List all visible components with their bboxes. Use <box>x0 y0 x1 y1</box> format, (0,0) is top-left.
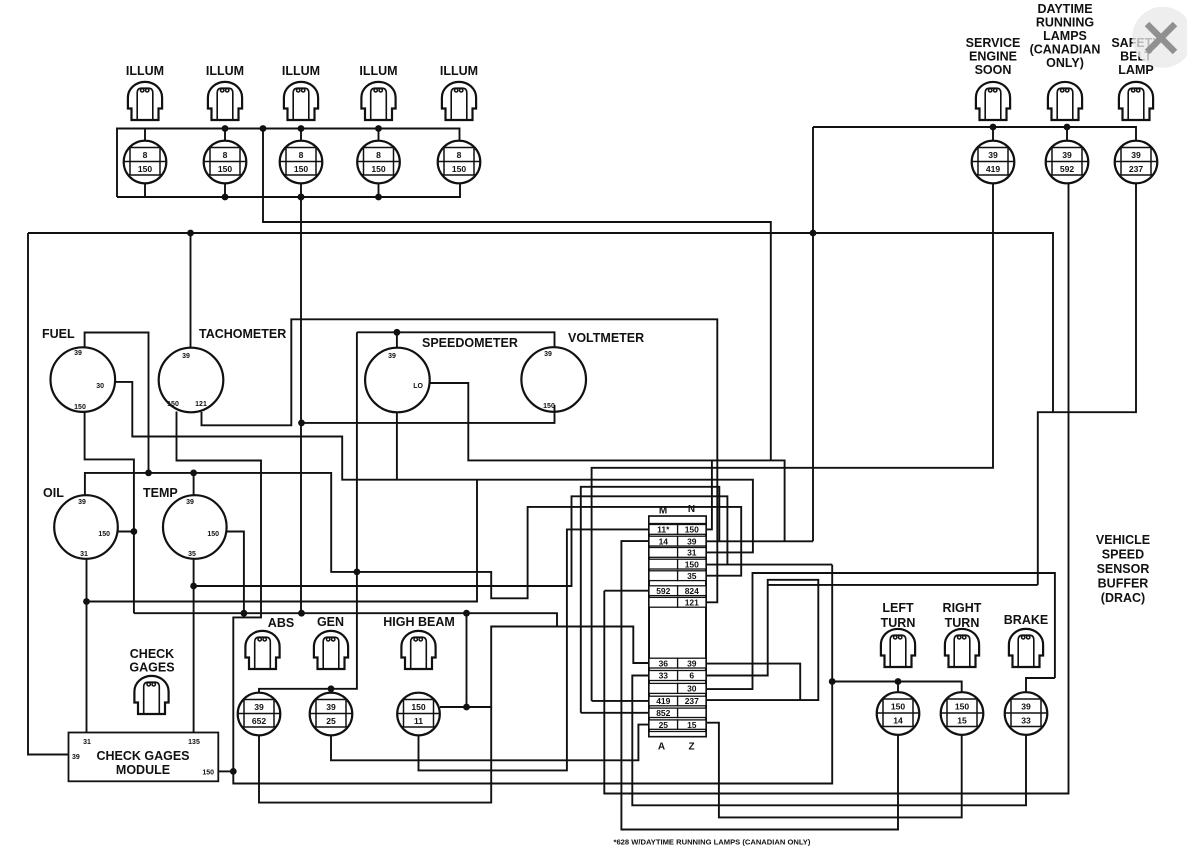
junction dot 39drop <box>354 569 361 576</box>
svg-text:36: 36 <box>659 658 669 668</box>
connector BRAKE (39/33) <box>1005 692 1048 735</box>
wire N237 exit <box>706 580 818 700</box>
wire SAFETY 237 drop <box>1038 183 1136 585</box>
svg-text:BRAKE: BRAKE <box>1004 613 1048 627</box>
junction dot bottom bus <box>298 194 305 201</box>
svg-text:31: 31 <box>80 551 88 558</box>
svg-text:ABS: ABS <box>268 616 294 630</box>
wire stub DRL top <box>1066 127 1068 141</box>
junction dot x813 y233 <box>810 230 817 237</box>
connector LEFT TURN (150/14) <box>877 692 920 735</box>
svg-text:150: 150 <box>955 702 970 712</box>
wire M852 stub <box>581 712 649 714</box>
svg-text:SPEEDOMETER: SPEEDOMETER <box>422 336 518 350</box>
svg-text:MODULE: MODULE <box>116 763 170 777</box>
gauge OIL <box>54 495 118 559</box>
lamp DAYTIME RUNNING LAMPS bulb <box>1048 82 1082 120</box>
svg-text:35: 35 <box>687 571 697 581</box>
connector C3 ILLUM (8/150) <box>280 141 323 184</box>
wire FUEL.39 riser <box>85 333 149 473</box>
svg-text:150: 150 <box>167 401 179 408</box>
svg-text:25: 25 <box>326 716 336 726</box>
svg-text:150: 150 <box>685 559 699 569</box>
connector HIGH BEAM (150/11) <box>397 693 440 736</box>
wire GEN top stub <box>330 689 332 693</box>
lamp ILLUM 5 bulb <box>442 82 476 120</box>
svg-text:592: 592 <box>1060 164 1075 174</box>
wire stub lamp feed <box>224 129 226 142</box>
junction dot temp39-bus <box>190 470 197 477</box>
junction dot drl top <box>1064 124 1071 131</box>
svg-text:SERVICE: SERVICE <box>966 36 1021 50</box>
svg-text:150: 150 <box>98 531 110 538</box>
wire OIL.31 branch <box>87 480 478 602</box>
wire M592 stub <box>604 590 649 592</box>
svg-text:121: 121 <box>195 401 207 408</box>
pin label SPEEDO 39 <box>388 353 396 360</box>
label VEHICLE SPEED SENSOR BUFFER (DRAC) <box>1096 533 1150 605</box>
junction dot x301 y197 <box>298 194 305 201</box>
junction dot speedo-top <box>394 329 401 336</box>
wire right lamp top bus y127 <box>813 127 1136 141</box>
svg-text:11*: 11* <box>657 525 670 535</box>
wire TEMP.35 drop to module <box>193 559 195 733</box>
svg-text:39: 39 <box>988 150 998 160</box>
lamp ILLUM 1 bulb <box>128 82 162 120</box>
gauge VOLTMETER <box>521 347 586 412</box>
svg-text:30: 30 <box>687 684 697 694</box>
wire stub lamp feed <box>144 129 146 142</box>
wire N39row8 exit <box>706 664 800 701</box>
connector block C100 (M/N, A/Z) <box>649 516 706 736</box>
svg-text:39: 39 <box>326 702 336 712</box>
pin label FUEL 39 <box>74 350 82 357</box>
junction dot fuel39-bus <box>145 470 152 477</box>
svg-text:237: 237 <box>1129 164 1144 174</box>
lamp ILLUM 4 bulb <box>361 82 395 120</box>
svg-text:ILLUM: ILLUM <box>126 64 164 78</box>
wire net-8 drop and run y222 <box>263 129 771 461</box>
svg-text:30: 30 <box>96 383 104 390</box>
connector C2 ILLUM (8/150) <box>204 141 247 184</box>
label SPEEDOMETER <box>422 336 518 350</box>
svg-text:(CANADIAN: (CANADIAN <box>1030 43 1101 57</box>
label ABS <box>268 616 294 630</box>
svg-text:39: 39 <box>186 499 194 506</box>
wire 150 drop from y613 <box>466 613 468 707</box>
wire ILLUM bottom bus <box>117 184 460 198</box>
junction dot service top <box>990 124 997 131</box>
wire ABS.652 run <box>259 707 491 803</box>
lamp ABS bulb <box>245 631 279 669</box>
label LEFT TURN <box>881 601 916 630</box>
svg-text:TEMP: TEMP <box>143 486 178 500</box>
connector SERVICE (39/419) <box>972 141 1015 184</box>
wire net150 run y613 <box>134 613 557 626</box>
svg-text:419: 419 <box>986 164 1001 174</box>
block footer Z <box>688 742 694 753</box>
svg-text:39: 39 <box>72 754 80 761</box>
svg-text:8: 8 <box>376 150 381 160</box>
svg-text:ILLUM: ILLUM <box>440 64 478 78</box>
wire 39-net left border drop to module <box>28 233 69 755</box>
svg-text:39: 39 <box>74 350 82 357</box>
lamp ILLUM 3 label <box>282 64 320 78</box>
wire DRL 592 drop <box>604 183 1068 793</box>
svg-text:39: 39 <box>78 499 86 506</box>
svg-text:N: N <box>688 504 695 515</box>
svg-text:(DRAC): (DRAC) <box>1101 591 1145 605</box>
wire ILLUM top bus <box>117 129 460 198</box>
wire TEMP.39 stub <box>193 473 195 495</box>
footnote *628 note <box>614 838 811 847</box>
label GEN <box>317 615 344 629</box>
wire net-150 long drop x301 <box>300 197 302 613</box>
module pin 31 <box>83 739 91 746</box>
wire OIL.31 drop to module <box>86 559 88 733</box>
svg-text:150: 150 <box>207 531 219 538</box>
connector SAFETY BELT (39/237) <box>1115 141 1158 184</box>
wire M33 to BRAKE 33 <box>632 676 1026 806</box>
svg-text:135: 135 <box>188 739 200 746</box>
lamp BRAKE bulb <box>1009 629 1043 667</box>
junction dot module150 <box>230 768 237 775</box>
pin label OIL 150 <box>98 531 110 538</box>
svg-text:121: 121 <box>685 598 699 608</box>
pin label TEMP 35 <box>188 551 196 558</box>
svg-text:ILLUM: ILLUM <box>359 64 397 78</box>
junction dot x301 y613 <box>298 610 305 617</box>
svg-text:39: 39 <box>182 353 190 360</box>
svg-text:VEHICLE: VEHICLE <box>1096 533 1150 547</box>
wire SPEEDO bottom drop <box>396 412 398 479</box>
svg-text:8: 8 <box>143 150 148 160</box>
pin label TACH 150 <box>167 401 179 408</box>
label FUEL <box>42 327 75 341</box>
junction dot top bus x263 <box>260 125 267 132</box>
junction dot top bus <box>298 125 305 132</box>
module pin 39 <box>72 754 80 761</box>
svg-text:39: 39 <box>1131 150 1141 160</box>
block header N <box>688 504 695 515</box>
svg-text:M: M <box>659 506 667 517</box>
wire 39-net feed y233 <box>28 233 1053 412</box>
lamp ILLUM 4 label <box>359 64 397 78</box>
wire 39 bus over OIL/TEMP <box>85 473 741 598</box>
pin label TEMP 39 <box>186 499 194 506</box>
wire TACH.39 riser <box>190 233 192 348</box>
svg-text:ONLY): ONLY) <box>1046 56 1084 70</box>
svg-text:150: 150 <box>294 164 309 174</box>
junction dot bottom bus <box>375 194 382 201</box>
svg-text:35: 35 <box>188 551 196 558</box>
label SERVICE ENGINE SOON <box>966 36 1021 77</box>
svg-text:31: 31 <box>687 548 697 558</box>
wire SERVICE 419 drop <box>592 183 993 701</box>
wire stub lamp return <box>300 184 302 198</box>
label CHECK GAGES <box>129 647 174 675</box>
svg-text:11: 11 <box>414 716 423 726</box>
svg-text:ENGINE: ENGINE <box>969 50 1017 64</box>
svg-text:39: 39 <box>687 536 697 546</box>
wire TEMP.35 branch y586 <box>194 496 728 586</box>
wire FUEL.150 drop <box>85 412 134 614</box>
lamp ILLUM 5 label <box>440 64 478 78</box>
connector C4 ILLUM (8/150) <box>357 141 400 184</box>
wire N150 hook from LO line <box>706 460 712 529</box>
svg-text:150: 150 <box>411 702 426 712</box>
svg-text:33: 33 <box>659 671 669 681</box>
wire N39row2 line <box>706 540 813 542</box>
label DAYTIME RUNNING LAMPS (CANADIAN ONLY) <box>1030 2 1101 70</box>
svg-text:FUEL: FUEL <box>42 327 75 341</box>
svg-text:8: 8 <box>299 150 304 160</box>
wire stub lamp feed <box>300 129 302 142</box>
wire stub lamp return <box>144 184 146 198</box>
lamp ILLUM 3 bulb <box>284 82 318 120</box>
wire net y584.9 right <box>768 584 1038 586</box>
wire stub SERVICE top <box>992 127 994 141</box>
pin label FUEL 30 <box>96 383 104 390</box>
svg-text:ILLUM: ILLUM <box>282 64 320 78</box>
svg-text:150: 150 <box>218 164 233 174</box>
wire 39 drop to ABS/GEN <box>259 332 357 693</box>
wire x813 from bus to N-39 row <box>812 127 814 541</box>
wire FUEL.30 run <box>115 382 753 553</box>
block header M <box>659 506 667 517</box>
gauge TACHOMETER <box>159 348 224 413</box>
wire LT/RT 150 bus <box>831 682 961 693</box>
junction dot top bus <box>222 125 229 132</box>
svg-text:33: 33 <box>1021 716 1031 726</box>
wire GEN.25 run <box>331 725 649 761</box>
label BRAKE <box>1004 613 1048 627</box>
svg-text:39: 39 <box>544 351 552 358</box>
svg-text:652: 652 <box>252 716 267 726</box>
lamp HIGH BEAM bulb <box>401 631 435 669</box>
svg-text:8: 8 <box>457 150 462 160</box>
wire stub lamp return <box>378 184 380 198</box>
svg-text:150: 150 <box>371 164 386 174</box>
label HIGH BEAM <box>383 615 455 629</box>
svg-text:LAMP: LAMP <box>1118 63 1153 77</box>
junction dot 613-hb <box>463 610 470 617</box>
lamp ILLUM 2 bulb <box>208 82 242 120</box>
wire OIL.150 stub <box>118 531 134 533</box>
svg-text:15: 15 <box>687 720 697 730</box>
svg-text:15: 15 <box>957 716 967 726</box>
wire BRAKE top run <box>1026 678 1055 693</box>
svg-text:LAMPS: LAMPS <box>1043 29 1087 43</box>
svg-text:OIL: OIL <box>43 486 64 500</box>
svg-text:39: 39 <box>388 353 396 360</box>
svg-text:150: 150 <box>685 525 699 535</box>
wire TEMP.150 drop <box>227 532 244 614</box>
wire Z15 to RIGHT TURN 15 <box>706 723 962 818</box>
gauge SPEEDOMETER <box>365 348 430 413</box>
svg-text:SPEED: SPEED <box>1102 548 1144 562</box>
junction dot 150bus-lt <box>895 678 902 685</box>
lamp LEFT TURN bulb <box>881 629 915 667</box>
svg-text:A: A <box>658 742 665 753</box>
ui close button <box>1132 7 1187 68</box>
svg-text:852: 852 <box>656 708 670 718</box>
junction dot temp150-613 <box>241 610 248 617</box>
svg-text:25: 25 <box>659 720 669 730</box>
svg-text:SENSOR: SENSOR <box>1097 562 1150 576</box>
svg-text:39: 39 <box>1021 702 1031 712</box>
wire TACH.121 route <box>202 319 718 602</box>
wire N30 exit <box>706 573 1055 689</box>
svg-text:SOON: SOON <box>975 63 1012 77</box>
wire M419 stub <box>592 700 649 702</box>
pin label VOLT 150 <box>543 403 555 410</box>
module pin 135 <box>188 739 200 746</box>
svg-text:592: 592 <box>656 586 670 596</box>
svg-text:LEFT: LEFT <box>882 601 914 615</box>
label VOLTMETER <box>568 331 644 345</box>
pin label TACH 121 <box>195 401 207 408</box>
wire VOLT.150 run <box>302 405 555 423</box>
junction dot oil150 <box>131 528 138 535</box>
lamp ILLUM 1 label <box>126 64 164 78</box>
wire M14 to LEFT TURN 14 <box>621 541 898 829</box>
svg-text:150: 150 <box>202 770 214 777</box>
junction dot hb-150 <box>463 704 470 711</box>
module CHECK GAGES MODULE box <box>69 733 219 782</box>
label TEMP <box>143 486 178 500</box>
svg-text:DAYTIME: DAYTIME <box>1037 2 1092 16</box>
svg-text:31: 31 <box>83 739 91 746</box>
svg-text:RIGHT: RIGHT <box>943 601 982 615</box>
svg-text:6: 6 <box>689 671 694 681</box>
wire LT top stub <box>897 682 899 693</box>
svg-text:150: 150 <box>543 403 555 410</box>
pin label FUEL 150 <box>74 404 86 411</box>
junction dot x301 y422.9 <box>298 420 305 427</box>
svg-text:LO: LO <box>413 383 423 390</box>
wire N150row4 line <box>706 564 832 566</box>
wire module 150 stub <box>218 770 233 772</box>
connector RIGHT TURN (150/15) <box>941 692 984 735</box>
svg-text:150: 150 <box>138 164 153 174</box>
svg-text:39: 39 <box>1062 150 1072 160</box>
junction dot temp35 <box>190 583 197 590</box>
gauge TEMP <box>163 495 227 559</box>
svg-text:150: 150 <box>891 702 906 712</box>
svg-text:ILLUM: ILLUM <box>206 64 244 78</box>
svg-text:824: 824 <box>685 586 699 596</box>
svg-text:VOLTMETER: VOLTMETER <box>568 331 644 345</box>
wire TACH.150 route <box>177 412 833 784</box>
svg-text:HIGH BEAM: HIGH BEAM <box>383 615 455 629</box>
lamp ILLUM 2 label <box>206 64 244 78</box>
lamp CHECK GAGES bulb <box>134 676 168 714</box>
connector C5 ILLUM (8/150) <box>438 141 481 184</box>
lamp SAFETY BELT bulb <box>1119 82 1153 120</box>
svg-text:RUNNING: RUNNING <box>1036 16 1094 30</box>
pin label OIL 39 <box>78 499 86 506</box>
svg-text:14: 14 <box>893 716 903 726</box>
junction dot tach-39 tap <box>187 230 194 237</box>
svg-text:237: 237 <box>685 696 699 706</box>
connector C1 ILLUM (8/150) <box>124 141 167 184</box>
svg-text:39: 39 <box>687 658 697 668</box>
junction dot top bus <box>375 125 382 132</box>
svg-text:GEN: GEN <box>317 615 344 629</box>
module pin 150 <box>202 770 214 777</box>
svg-text:39: 39 <box>254 702 264 712</box>
svg-text:419: 419 <box>656 696 670 706</box>
pin label TEMP 150 <box>207 531 219 538</box>
svg-text:Z: Z <box>688 742 694 753</box>
wire SPEEDO/VOLT top bus <box>357 332 555 347</box>
junction dot oil31 <box>83 598 90 605</box>
gauge FUEL <box>51 347 116 412</box>
svg-text:CHECK: CHECK <box>130 647 174 661</box>
lamp RIGHT TURN bulb <box>945 629 979 667</box>
svg-text:8: 8 <box>223 150 228 160</box>
pin label OIL 31 <box>80 551 88 558</box>
wire HB.150 right line <box>440 627 649 708</box>
junction dot gen-top <box>328 685 335 692</box>
wire h4 hook <box>581 487 720 713</box>
svg-text:*628 W/DAYTIME RUNNING LAMPS (: *628 W/DAYTIME RUNNING LAMPS (CANADIAN O… <box>614 838 811 847</box>
label OIL <box>43 486 64 500</box>
label TACHOMETER <box>199 327 286 341</box>
svg-text:14: 14 <box>659 536 669 546</box>
connector DRL (39/592) <box>1046 141 1089 184</box>
connector ABS (39/652) <box>238 693 281 736</box>
lamp SERVICE ENGINE SOON bulb <box>976 82 1010 120</box>
pin label SPEEDO LO <box>413 383 423 390</box>
block footer A <box>658 742 665 753</box>
wire stub lamp return <box>224 184 226 198</box>
connector GEN (39/25) <box>310 693 353 736</box>
junction dot bottom bus <box>222 194 229 201</box>
svg-text:GAGES: GAGES <box>129 661 174 675</box>
wire SPEEDO top stub <box>396 332 398 347</box>
lamp GEN bulb <box>314 631 348 669</box>
pin label TACH 39 <box>182 353 190 360</box>
wire SPEEDO LO run <box>430 383 785 541</box>
label SAFETY BELT LAMP <box>1111 36 1161 77</box>
label RIGHT TURN <box>943 601 982 630</box>
junction dot 150bus-a <box>829 678 836 685</box>
wire HB.11 run <box>419 529 650 770</box>
svg-text:150: 150 <box>452 164 467 174</box>
svg-text:CHECK GAGES: CHECK GAGES <box>96 749 189 763</box>
svg-text:BUFFER: BUFFER <box>1098 577 1149 591</box>
wire stub lamp feed <box>378 129 380 142</box>
module title <box>96 749 189 777</box>
pin label VOLT 39 <box>544 351 552 358</box>
svg-text:TACHOMETER: TACHOMETER <box>199 327 286 341</box>
svg-text:150: 150 <box>74 404 86 411</box>
